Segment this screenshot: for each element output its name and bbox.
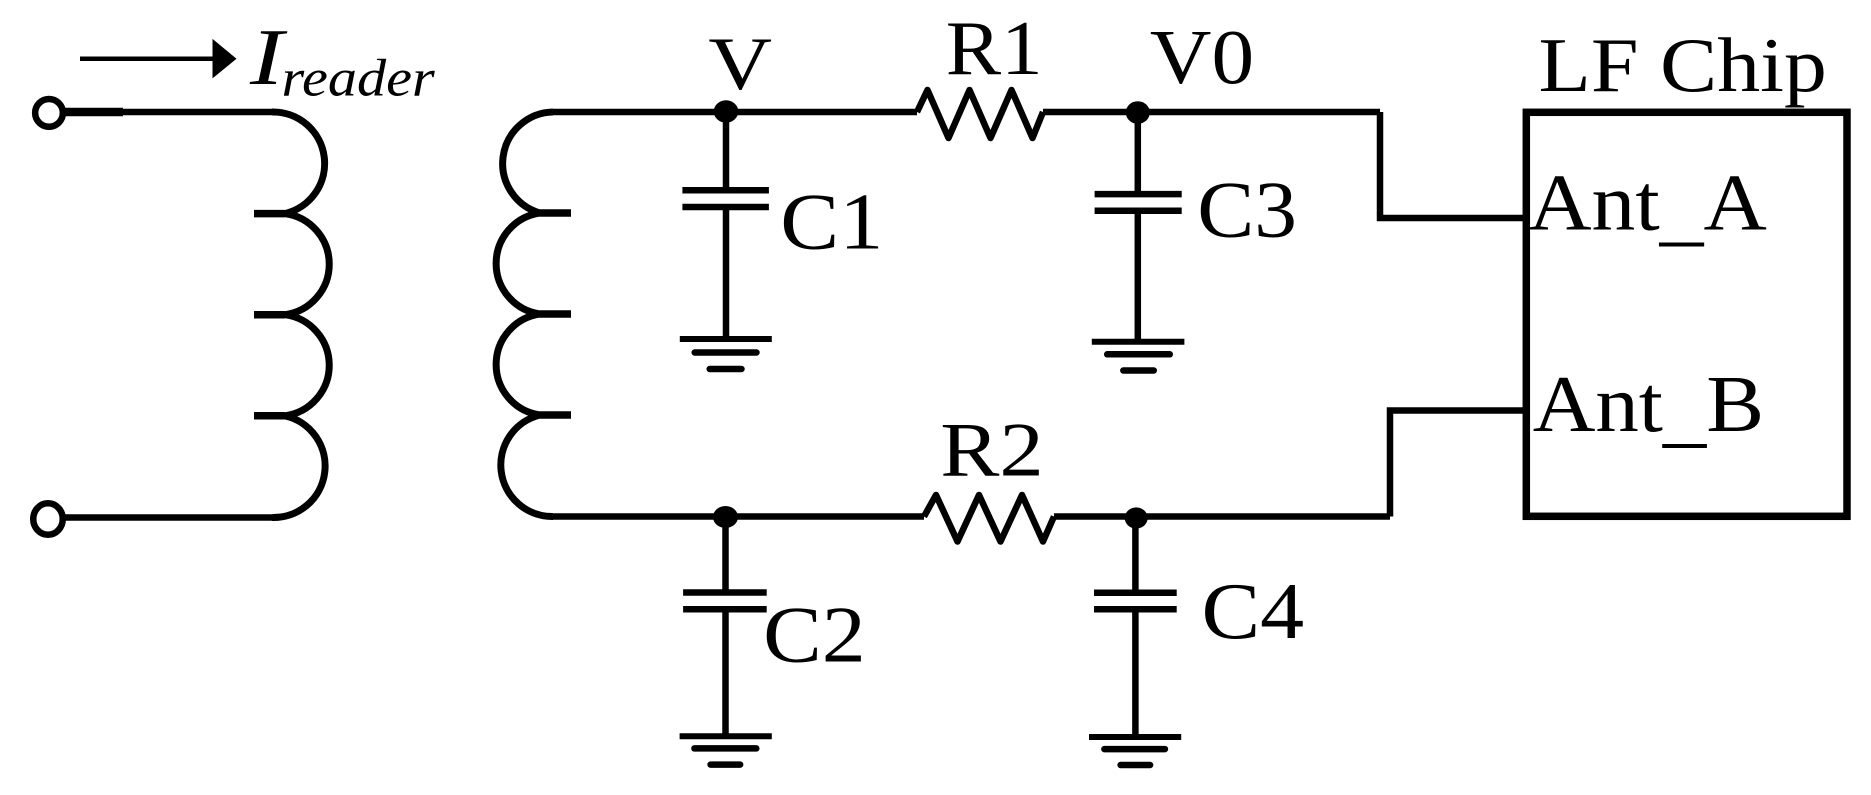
svg-text:V0: V0 — [1150, 14, 1254, 101]
capacitor C2 — [683, 517, 767, 736]
wire bottom rail left — [553, 513, 924, 520]
svg-text:LF Chip: LF Chip — [1539, 22, 1827, 108]
terminal T2 bottom-left — [33, 503, 63, 535]
ground GND3 — [1092, 342, 1185, 371]
ground GND1 — [680, 339, 772, 369]
svg-text:C1: C1 — [780, 178, 883, 266]
svg-text:Ant_B: Ant_B — [1533, 361, 1764, 456]
wire V0 segment — [1043, 109, 1380, 116]
svg-text:Ant_A: Ant_A — [1528, 159, 1767, 254]
wire bottom rail right — [1054, 513, 1390, 520]
svg-text:V: V — [708, 22, 772, 106]
wire top rail — [553, 109, 917, 116]
ground GND2 — [680, 736, 772, 764]
inductor L1 reader coil — [254, 112, 329, 518]
svg-text:reader: reader — [282, 49, 436, 107]
resistor R1 — [917, 90, 1043, 138]
terminal T1 top-left — [35, 99, 63, 127]
label I_reader — [249, 12, 435, 107]
capacitor C4 — [1094, 517, 1177, 737]
svg-text:R2: R2 — [940, 407, 1044, 492]
resistor R2 — [924, 495, 1054, 542]
svg-text:C4: C4 — [1202, 567, 1305, 655]
svg-text:C3: C3 — [1197, 165, 1297, 254]
svg-text:C2: C2 — [763, 591, 866, 679]
wire riser to Ant_B — [1390, 411, 1526, 517]
node V — [714, 100, 739, 122]
ground GND4 — [1089, 737, 1181, 765]
wire top-left lead — [63, 109, 272, 116]
wire bottom-left lead — [62, 514, 272, 521]
node junction C4 — [1125, 507, 1148, 528]
wire riser to Ant_A — [1380, 112, 1526, 218]
current arrow Ireader — [80, 39, 237, 79]
IC U1 LF Chip box — [1526, 112, 1847, 516]
inductor L2 tag coil — [496, 112, 571, 517]
node junction C2 — [713, 506, 738, 528]
node V0 — [1126, 101, 1150, 124]
capacitor C3 — [1095, 112, 1182, 342]
capacitor C1 — [682, 112, 769, 339]
svg-text:R1: R1 — [946, 5, 1043, 91]
